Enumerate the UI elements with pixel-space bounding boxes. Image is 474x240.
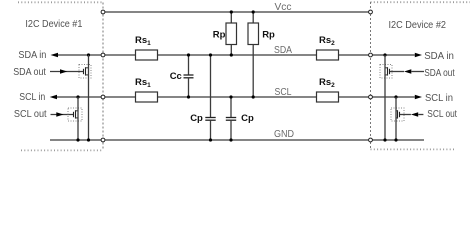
wire SCL in (device #1) [57,96,101,98]
wire SCL rail right [339,96,369,98]
node Vcc port device #1 [101,10,105,14]
wire Q3 drain-source vertical (SDA to GND) [384,55,386,140]
transistor Q1 (SDA driver, device #1) [79,65,91,79]
svg-text:SCL: SCL [275,87,292,98]
wire SCL in (device #2) [373,96,415,98]
wire GND stub device #1 [50,139,101,141]
wire Vcc rail [105,11,369,13]
device #2 dashed enclosure top edge [371,1,471,3]
transistor Q3 (SDA driver, device #2) [380,65,392,79]
node Vcc port device #2 [369,10,373,14]
node GND port device #1 [101,138,105,142]
junction Vcc/Rp1 [230,10,233,13]
wire SDA in (device #2) [373,54,415,56]
node SCL port device #2 [369,95,373,99]
capacitor Cc stem to SCL [188,78,190,97]
capacitor Cp (SDA) top plate [205,117,215,119]
junction GND/Q3 source [383,138,386,141]
junction GND/Q1 source [87,138,90,141]
svg-text:GND: GND [274,129,294,140]
wire SCL out gate lead (device #2) [400,114,411,116]
junction GND/Cp1 [209,138,212,141]
arrow SDA in (device #1, points left) [51,53,59,57]
junction SDA/Q3 drain [383,53,386,56]
svg-text:SCL out: SCL out [14,109,47,120]
svg-text:SDA out: SDA out [424,68,455,79]
svg-text:SCL in: SCL in [425,93,453,104]
wire SDA rail mid [158,54,317,56]
junction GND/Q2 source [76,138,79,141]
node SDA port device #1 [101,53,105,57]
wire SDA out gate lead (device #1) [50,71,84,73]
svg-text:Cp: Cp [241,113,254,124]
capacitor Cp (SCL) bottom plate [226,119,236,121]
junction SDA/Rp1 [230,53,233,56]
arrow SDA out (device #1, points right) [60,69,67,73]
resistor Rp (SCL pull-up) body [248,23,259,45]
capacitor Cp (SCL) top plate [226,117,236,119]
resistor Rp (SDA pull-up) stem to SDA [230,45,232,56]
junction SDA/Cp1 [209,53,212,56]
arrow SCL in (device #2, points right) [415,95,422,99]
svg-text:SCL out: SCL out [427,109,457,120]
wire Q4 drain-source vertical (SCL to GND) [395,97,397,140]
wire SCL rail [105,96,136,98]
wire SCL rail mid [158,96,317,98]
resistor Rp (SDA pull-up) body [226,23,237,45]
capacitor Cp (SCL) stem to GND [230,120,232,140]
junction SDA/Q1 drain [87,53,90,56]
svg-text:SDA in: SDA in [424,51,454,62]
svg-text:Vcc: Vcc [275,2,292,13]
capacitor Cp (SCL) stem from SCL [230,97,232,118]
wire SCL out gate lead (device #1) [51,114,74,116]
wire Q2 drain-source vertical (SCL to GND) [77,97,79,140]
junction SCL/Cp2 [229,95,232,98]
junction SCL/Q2 drain [76,95,79,98]
svg-text:SDA in: SDA in [18,50,46,61]
node SDA port device #2 [369,53,373,57]
wire Q1 drain-source vertical (SDA to GND) [88,55,90,140]
resistor Rp (SCL pull-up) stem from Vcc [252,12,254,23]
junction SCL/Rp2 [252,95,255,98]
wire GND rail [105,139,369,141]
resistor Rs1 (SCL series, device #1) body [136,92,158,102]
junction Vcc/Rp2 [252,10,255,13]
resistor Rs2 (SDA series, device #2) body [317,50,339,60]
svg-text:Rp: Rp [262,30,275,41]
device #2 dashed enclosure bottom edge [371,148,455,150]
resistor Rs2 (SCL series, device #2) body [317,92,339,102]
arrow SCL in (device #1, points left) [50,95,57,99]
svg-text:I2C Device #1: I2C Device #1 [25,19,82,30]
wire SCL out lead to label (device #2) [418,114,423,116]
wire SDA out lead to label (device #2) [411,71,424,73]
wire SDA rail [105,54,136,56]
wire GND stub device #2 [373,139,425,141]
svg-text:Cp: Cp [190,113,203,124]
arrow SDA in (device #2, points right) [415,53,422,57]
svg-text:SDA out: SDA out [13,67,46,78]
svg-text:Cc: Cc [170,71,182,82]
device #2 dashed boundary (left edge) [370,2,372,150]
node GND port device #2 [369,138,373,142]
svg-text:Rp: Rp [213,30,226,41]
transistor Q4 (SCL driver, device #2) [391,108,404,121]
resistor Rs1 (SDA series, device #1) body [136,50,158,60]
capacitor Cp (SDA) bottom plate [205,119,215,121]
arrow SCL out (device #2, points left) [411,112,418,116]
svg-text:I2C Device #2: I2C Device #2 [389,20,447,31]
resistor Rp (SDA pull-up) stem from Vcc [230,12,232,23]
junction SDA/Cc [187,53,190,56]
svg-text:SCL in: SCL in [19,92,45,103]
wire SDA rail right [339,54,369,56]
capacitor Cp (SDA) stem to GND [210,120,212,140]
arrow SCL out (device #1, points right) [56,112,63,116]
capacitor Cc stem from SDA [188,55,190,75]
junction SCL/Q4 drain [394,95,397,98]
resistor Rp (SCL pull-up) stem to SCL (crosses SDA) [252,45,254,98]
device #1 dashed enclosure bottom edge [21,149,103,151]
svg-text:SDA: SDA [274,45,292,56]
junction GND/Q4 source [394,138,397,141]
transistor Q2 (SCL driver, device #1) [68,108,82,121]
capacitor Cp (SDA) stem from SDA (crosses SCL) [210,55,212,118]
node SCL port device #1 [101,95,105,99]
junction GND/Cp2 [229,138,232,141]
wire SDA out gate lead (device #2) [390,71,405,73]
wire SDA in (device #1) [58,54,101,56]
device #1 dashed boundary (right edge) [102,3,104,151]
arrow SDA out (device #2, points left) [404,69,411,73]
junction SCL/Cc [187,95,190,98]
capacitor Cc bottom plate [184,77,194,79]
device #1 dashed enclosure top edge [18,1,103,3]
capacitor Cc top plate [184,74,194,76]
